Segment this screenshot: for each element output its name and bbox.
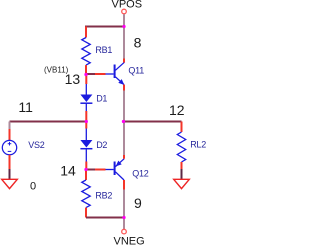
node VNEG terminal circle (122, 229, 127, 234)
resistor RB1 (82, 27, 90, 75)
svg-text:VPOS: VPOS (112, 0, 143, 10)
ground symbol RL2 (174, 179, 190, 188)
wire node 12 horizontal to RL2 (124, 121, 182, 123)
node VPOS terminal circle (122, 9, 127, 14)
transistor Q12 (114, 159, 125, 180)
wire node 8 horizontal to RB1 top (85, 26, 124, 28)
wire Q11 emitter to node 12 (123, 91, 125, 122)
svg-text:RB1: RB1 (95, 45, 112, 55)
diode D2 (80, 122, 92, 170)
wire Q12 collector pin (123, 180, 125, 190)
transistor Q11 (114, 62, 125, 85)
wire Q11 emitter pin (123, 85, 125, 91)
resistor RB2 (82, 170, 90, 218)
svg-text:0: 0 (30, 181, 36, 193)
wire node 8 down to Q11 collector (123, 27, 125, 59)
svg-text:9: 9 (134, 195, 142, 211)
ground pin RL2 (181, 169, 183, 179)
wire node 9 to VNEG circle (123, 218, 125, 230)
svg-text:VNEG: VNEG (114, 236, 145, 245)
wire node 11 corner down (9, 122, 11, 130)
svg-text:VS2: VS2 (28, 140, 45, 150)
wire node 13 to Q11 base (86, 73, 95, 75)
svg-text:RB2: RB2 (95, 190, 112, 200)
svg-text:Q11: Q11 (128, 66, 144, 76)
svg-text:13: 13 (65, 71, 81, 87)
svg-text:14: 14 (60, 162, 76, 178)
svg-text:11: 11 (18, 99, 33, 115)
svg-text:12: 12 (169, 102, 185, 118)
wire VPOS circle to junction 8 (123, 14, 125, 26)
wire Q11 collector pin (123, 59, 125, 63)
voltage source VS2 (2, 129, 16, 169)
wire node 11 horizontal (10, 121, 87, 123)
resistor RL2 (177, 122, 185, 170)
svg-text:D1: D1 (96, 94, 107, 104)
wire RB2 bottom to node 9 (86, 217, 124, 219)
junction dot node 9 (122, 216, 125, 219)
svg-text:Q12: Q12 (132, 169, 149, 179)
wire node 12 down to Q12 emitter (123, 122, 125, 156)
ground pin VS2 (9, 169, 11, 179)
wire Q12 emitter pin (123, 155, 125, 159)
wire node 14 to Q12 base (86, 169, 95, 171)
junction dot node 8 (122, 25, 125, 28)
junction dot node 12 (122, 120, 125, 123)
svg-text:8: 8 (134, 34, 142, 50)
wire Q12 collector to node 9 (123, 190, 125, 218)
junction dot node 13 (84, 73, 87, 76)
ground symbol 0 (2, 179, 18, 188)
svg-text:RL2: RL2 (190, 140, 206, 150)
svg-text:D2: D2 (96, 140, 107, 150)
junction dot node 14 (84, 168, 87, 171)
diode D1 (80, 75, 92, 122)
junction dot D1-D2 (85, 120, 88, 123)
